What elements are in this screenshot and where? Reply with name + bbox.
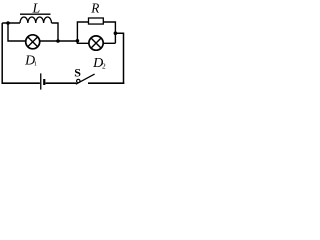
- svg-text:R: R: [90, 0, 99, 15]
- svg-text:L: L: [32, 0, 41, 15]
- svg-text:2: 2: [102, 61, 106, 70]
- svg-text:S: S: [74, 66, 81, 80]
- svg-text:1: 1: [34, 61, 37, 68]
